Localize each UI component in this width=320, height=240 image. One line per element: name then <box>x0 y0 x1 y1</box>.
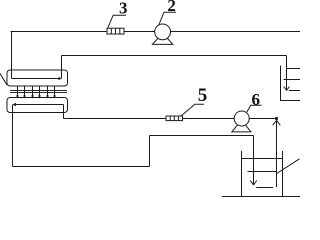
valve 3 body <box>107 28 124 34</box>
leader for label 2 <box>159 12 176 24</box>
vessel coil line B <box>284 79 301 81</box>
ground baseline <box>222 196 300 198</box>
svg-text:6: 6 <box>252 90 261 109</box>
arrowhead vessel inlet (open, down) <box>284 87 290 91</box>
right vessel wall <box>281 66 301 101</box>
wire bottom manifold left drain pipe <box>12 105 14 167</box>
leader for tank internals label (cropped) <box>276 159 300 174</box>
svg-text:5: 5 <box>198 85 208 106</box>
wire tank return riser <box>276 119 278 188</box>
leader for label 3 <box>108 15 126 28</box>
pump Q2 circle <box>155 24 171 40</box>
wire valve 5 to pump 6 <box>183 118 235 120</box>
valve 5 body <box>166 116 183 121</box>
tube 2 with arrow <box>23 86 26 99</box>
tank inner bottom line <box>256 187 273 189</box>
wire module bottom outlet drop <box>63 105 65 119</box>
leader for label 5 <box>181 104 204 116</box>
wire main top pipe <box>11 31 301 33</box>
wire recirculation pipe to valve 5 <box>64 118 167 120</box>
pump Q6 circle <box>234 111 249 126</box>
wire bottom drain horizontal run <box>13 166 150 168</box>
tank T1 right wall <box>282 151 284 197</box>
wire drain riser <box>149 136 151 167</box>
wire tank inlet downcomer <box>253 136 255 185</box>
svg-text:2: 2 <box>167 0 176 15</box>
leader to module label (cropped) <box>0 74 7 85</box>
membrane sheet lines <box>10 91 67 93</box>
vessel coil line C <box>289 90 300 92</box>
membrane module U1 bottom manifold <box>7 98 68 113</box>
tube 5 with arrow <box>46 86 49 99</box>
wire left vertical feed pipe <box>11 32 13 79</box>
arrowhead tank inlet (open, down) <box>250 181 256 185</box>
leader for label 6 <box>247 105 262 112</box>
pump Q2 triangle base <box>152 33 172 44</box>
wire vessel inlet downcomer <box>286 56 288 91</box>
arrowhead return riser (open, up) <box>273 120 281 125</box>
svg-text:3: 3 <box>119 0 128 18</box>
tube 6 with arrow <box>53 86 56 99</box>
wire second pipe (module top outlet to right vessel) <box>62 55 287 57</box>
wire module top riser <box>61 56 63 79</box>
junction node dot <box>275 117 278 120</box>
pump Q6 triangle base <box>232 120 251 132</box>
vessel coil line A <box>287 68 301 70</box>
tube 1 with arrow <box>16 86 19 99</box>
wire middle transfer pipe to tank <box>150 135 254 137</box>
node top manifold inner channel with arrow <box>12 77 62 80</box>
tube 3 with arrow <box>31 86 34 99</box>
tank inner baffle line <box>248 171 277 173</box>
wire pump 6 to junction <box>249 118 276 120</box>
node bottom manifold inner channel with arrow <box>12 103 63 106</box>
membrane module U1 top manifold <box>7 70 68 86</box>
tube 4 with arrow <box>38 86 41 99</box>
tank T1 left wall <box>241 151 243 197</box>
tank liquid level line <box>242 158 283 160</box>
